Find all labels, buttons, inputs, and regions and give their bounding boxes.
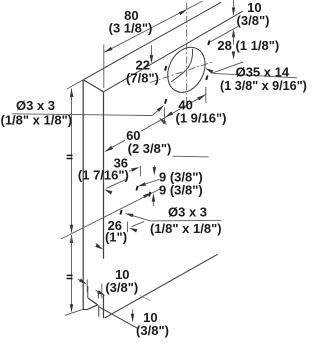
dim 26 lower arrowhead — [95, 244, 103, 250]
dim 80 extension above corner B — [103, 45, 105, 89]
dim 28 oblique extension — [212, 62, 244, 74]
drill hole bottom-right of cup — [205, 75, 208, 80]
dim 28 down arrowhead — [232, 51, 235, 59]
cup label leader — [207, 69, 215, 74]
panel left front vertical edge lower — [103, 295, 105, 318]
cup oblique centerline — [150, 62, 214, 83]
svg-text:(1 7/16"): (1 7/16") — [78, 168, 129, 183]
left hole label underline — [12, 114, 153, 116]
dim 60 underline extension — [173, 155, 209, 158]
svg-text:Ø35 x 14: Ø35 x 14 — [236, 64, 290, 79]
drill hole top-right of cup — [207, 40, 210, 45]
bottom 10 second down arrowhead — [131, 314, 135, 322]
svg-text:(1/8" x 1/8"): (1/8" x 1/8") — [150, 221, 222, 236]
right hole label leader — [129, 214, 151, 221]
between nine rows up arrowhead — [152, 193, 156, 201]
notch right wall upper — [97, 291, 99, 298]
dim 10 up arrowhead — [232, 29, 235, 37]
dim 36 lower arrowhead — [104, 189, 112, 194]
dim 40-60 dimension line lower — [105, 140, 125, 151]
panel left back vertical edge — [82, 80, 84, 310]
equal dim upper line — [71, 89, 73, 233]
dim 80 right arrowhead — [179, 10, 187, 16]
mid hole reference line — [61, 189, 160, 239]
between nine rows stem — [152, 199, 154, 206]
notch tick right — [101, 284, 103, 299]
cup vertical centerline — [186, 3, 188, 111]
hole row extension line — [211, 27, 238, 42]
equal dim bottom extension — [65, 309, 84, 315]
svg-text:(3/8"): (3/8") — [105, 280, 138, 295]
mid hole 3 diamond — [119, 210, 122, 215]
panel bottom back edge — [83, 309, 87, 311]
svg-text:(1"): (1") — [105, 230, 127, 245]
svg-text:9 (3/8"): 9 (3/8") — [159, 182, 203, 197]
notch right arrowhead — [97, 290, 105, 296]
dim 36 lower leader — [106, 179, 127, 189]
right hole label underline — [151, 219, 222, 222]
bottom label leader piece — [140, 296, 151, 301]
svg-text:(7/8"): (7/8") — [126, 71, 159, 86]
bottom 10 second stem — [132, 310, 134, 317]
dim 40 left arrowhead B — [159, 118, 166, 125]
panel top back edge — [83, 2, 221, 80]
svg-text:28 (1 1/8"): 28 (1 1/8") — [217, 38, 279, 53]
svg-text:(1 3/8" x 9/16"): (1 3/8" x 9/16") — [220, 79, 307, 93]
svg-text:Ø3 x 3: Ø3 x 3 — [168, 204, 207, 219]
svg-text:Ø3 x 3: Ø3 x 3 — [16, 98, 55, 113]
dim 10 stem above front edge — [233, 0, 235, 8]
svg-text:(1/8" x 1/8"): (1/8" x 1/8") — [1, 113, 73, 128]
dim 80 left arrowhead — [104, 47, 112, 53]
dim 40 left arrowhead A — [165, 112, 173, 118]
cup label underline — [214, 73, 297, 77]
notch right wall lower — [98, 305, 100, 317]
tick 2 down arrowhead — [153, 167, 157, 175]
equal dim top extension — [67, 80, 83, 89]
dim 36 tick 2 — [153, 165, 155, 169]
dim 40 right extension tick — [205, 87, 207, 103]
svg-text:(1 9/16"): (1 9/16") — [176, 111, 227, 126]
equal dim lower line — [71, 235, 73, 311]
dim 26 leader — [132, 221, 145, 226]
dim 60 arrowhead — [105, 146, 113, 152]
dim 9 first arrowhead — [138, 182, 147, 186]
cup label arrowhead — [205, 68, 213, 74]
equal sign upper — [67, 154, 73, 156]
drill hole bottom-left of cup — [164, 99, 167, 104]
cup hole ellipse — [161, 41, 213, 99]
equal dim middle down arrowhead — [70, 225, 73, 233]
dim 36 arrowhead — [131, 167, 140, 172]
dim 26 lower arrow tail — [96, 243, 100, 246]
dim 28 stem — [233, 36, 235, 45]
notch back left wall — [87, 286, 89, 298]
dim 40 right arrowhead — [197, 95, 205, 101]
equal dim top arrowhead — [70, 89, 74, 98]
right hole label arrowhead — [125, 213, 133, 217]
dim 28 lower stem — [233, 52, 235, 54]
left hole label arrowhead — [157, 105, 164, 112]
bottom thickness oblique edge — [99, 307, 138, 329]
mid reference arrowhead — [143, 193, 151, 198]
notch upper oblique edge — [88, 298, 97, 305]
panel top left thickness edge — [83, 80, 103, 92]
notch lower oblique edge — [87, 305, 97, 310]
notch left arrow tail — [78, 279, 81, 281]
panel bottom front edge — [105, 254, 218, 318]
dim 40-60 dimension line upper — [141, 94, 206, 131]
drill hole left of cup — [164, 66, 167, 71]
dim 36 leader — [129, 169, 136, 172]
equal sign lower — [67, 274, 73, 276]
notch top oblique edge — [98, 291, 103, 294]
dim 22 down arrowhead — [150, 55, 154, 63]
svg-text:(2 3/8"): (2 3/8") — [128, 141, 172, 156]
dim 10 down arrowhead — [232, 8, 235, 16]
svg-text:(3/8"): (3/8") — [237, 13, 270, 28]
dim 36 tick 1 — [139, 166, 141, 176]
dim 40 left arrow B tail — [163, 121, 167, 125]
dim 9 first leader — [141, 179, 160, 185]
dim 40 extension tick — [164, 108, 166, 122]
panel top front edge — [104, 11, 243, 92]
equal dim middle up arrowhead — [70, 235, 73, 243]
svg-text:(3 1/8"): (3 1/8") — [109, 21, 153, 36]
left hole label leader — [152, 109, 159, 116]
panel left front vertical edge upper — [103, 92, 105, 259]
svg-text:(3/8"): (3/8") — [136, 323, 169, 338]
dim 22 stem — [150, 45, 152, 56]
cup inner arc — [171, 49, 192, 82]
mid hole 1 diamond — [136, 186, 139, 191]
dim 26 arrowhead — [129, 228, 137, 233]
equal dim bottom arrowhead — [70, 304, 73, 312]
notch left arrowhead — [79, 279, 87, 285]
notch right arrow tail — [96, 290, 100, 292]
dim 26 extension tick — [127, 222, 129, 233]
dim 80 dimension line — [105, 1, 203, 52]
notch tick left — [86, 279, 88, 292]
mid hole 2 diamond — [148, 192, 151, 197]
